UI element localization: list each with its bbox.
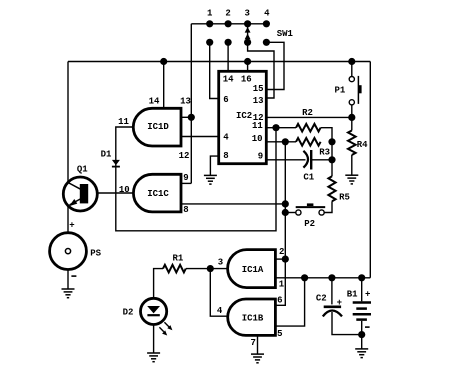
svg-text:R3: R3: [319, 148, 330, 158]
svg-text:14: 14: [223, 74, 234, 84]
svg-text:R1: R1: [172, 253, 183, 263]
svg-text:SW1: SW1: [277, 29, 294, 39]
wire: IC1B pin 7 to ground: [257, 335, 259, 354]
junction: rail to IC1 pin14: [160, 58, 167, 65]
svg-text:D2: D2: [123, 308, 134, 318]
svg-text:9: 9: [258, 152, 263, 162]
junction: SW1 position 1: [206, 39, 213, 46]
svg-text:16: 16: [241, 74, 252, 84]
gate IC1A: [228, 250, 276, 288]
svg-text:1: 1: [207, 9, 213, 19]
svg-text:3: 3: [244, 9, 249, 19]
wire: IC2 pin 8 to ground: [210, 156, 218, 175]
wire: IC1A pin 3 to R1: [186, 268, 229, 270]
svg-text:15: 15: [253, 84, 264, 94]
wire: IC1B pin 5 up to pin1 row: [275, 278, 304, 326]
battery B1: [353, 278, 371, 349]
junction: SW1 contact 2 top: [225, 20, 232, 27]
svg-text:4: 4: [223, 133, 229, 143]
junction: SW1 contact 3 top: [244, 20, 251, 27]
wire: IC1D output pin 11 feedback to R2 node: [116, 127, 276, 231]
svg-text:D1: D1: [101, 150, 112, 160]
wire: IC2 pin 9 to C1: [266, 159, 305, 161]
svg-text:11: 11: [118, 117, 129, 127]
svg-text:IC1A: IC1A: [242, 265, 264, 275]
junction: SW1 position 4: [263, 39, 270, 46]
svg-text:Q1: Q1: [77, 165, 88, 175]
svg-text:5: 5: [277, 329, 282, 339]
resistor R2: [296, 124, 321, 132]
wire: rail down to IC1D pin 14: [163, 62, 165, 109]
transistor Q1: [63, 177, 97, 211]
svg-text:+: +: [337, 298, 342, 308]
svg-text:C1: C1: [303, 173, 314, 183]
pushbutton P1: [349, 62, 361, 118]
svg-text:4: 4: [217, 306, 223, 316]
wire: PS minus to ground: [67, 270, 69, 290]
junction: pin3/pin4 node: [207, 265, 214, 272]
resistor R3: [296, 138, 321, 146]
op IC2 box: [219, 71, 267, 163]
junction: B1 top node: [358, 274, 365, 281]
svg-text:IC1C: IC1C: [147, 189, 169, 199]
svg-text:P1: P1: [334, 85, 345, 95]
resistor R4: [348, 117, 356, 175]
ground (B1): [355, 349, 368, 358]
wire: R1 left to D2: [154, 269, 163, 299]
svg-text:1: 1: [279, 280, 285, 290]
wire: IC2 pin 10 to R3: [266, 141, 296, 143]
junction: SW1 position 2: [225, 39, 232, 46]
junction: SW1 position 3: [244, 39, 251, 46]
svg-text:9: 9: [183, 173, 188, 183]
svg-text:2: 2: [279, 247, 284, 257]
svg-text:13: 13: [180, 97, 191, 107]
junction: pin 11 node: [272, 124, 279, 131]
svg-text:IC1D: IC1D: [147, 122, 169, 132]
wire: bottom supply row (IC1A pin1 to right rail): [275, 277, 370, 279]
svg-text:11: 11: [252, 121, 263, 131]
wire: SW1 pos2 to IC2 pin 14: [227, 42, 229, 71]
svg-text:12: 12: [179, 151, 190, 161]
svg-text:8: 8: [223, 151, 228, 161]
svg-text:6: 6: [223, 95, 228, 105]
gate IC1D: [133, 108, 181, 146]
ground (IC2 pin 8): [204, 175, 217, 184]
wire: IC1D pin 13 input: [181, 116, 191, 118]
wire: IC1A pin 2 input: [275, 258, 285, 260]
ground (R4): [345, 175, 358, 184]
ground (D2): [147, 353, 160, 362]
svg-text:8: 8: [183, 205, 188, 215]
gate IC1C: [133, 174, 181, 212]
svg-text:10: 10: [252, 134, 263, 144]
svg-text:14: 14: [149, 97, 160, 107]
junction: P2 row node: [282, 209, 289, 216]
svg-text:R4: R4: [357, 140, 368, 150]
wire: top supply rail: [68, 61, 370, 63]
wire: right rail from top rail to battery row: [369, 62, 371, 278]
junction: B1 minus / C2 minus node: [358, 331, 365, 338]
junction: pin13 node: [188, 114, 195, 121]
wire: R2 right to R3 node: [321, 128, 332, 142]
wire: D2 to ground: [153, 324, 155, 353]
svg-text:IC1B: IC1B: [242, 313, 264, 323]
wire: Q1 emitter to PS plus: [67, 206, 69, 233]
svg-text:B1: B1: [347, 289, 358, 299]
led D2: [141, 298, 173, 335]
minus label (B1): [365, 326, 370, 328]
svg-text:C2: C2: [316, 294, 327, 304]
wire: SW1 common down to IC1D pin13 / IC1C pin9: [190, 24, 192, 184]
switch SW1 wiper arrow: [245, 24, 251, 43]
connector PS: [50, 233, 87, 270]
diode D1: [112, 160, 120, 167]
svg-text:3: 3: [218, 257, 223, 267]
junction: rail to P1: [348, 58, 355, 65]
wire: C1 to R5 node: [311, 159, 332, 161]
wire: left rail from top rail to Q1 collector: [67, 62, 69, 183]
node SW1 common bus: [191, 23, 266, 25]
wire: vertical rail pin10 node down to IC1B pin 6: [275, 142, 285, 305]
svg-text:13: 13: [253, 96, 264, 106]
svg-text:2: 2: [225, 9, 230, 19]
ground (IC1B pin 7): [251, 354, 264, 363]
svg-text:R5: R5: [339, 193, 350, 203]
junction: SW1 contact 1 top: [206, 20, 213, 27]
pushbutton P2: [285, 203, 325, 215]
gate IC1B: [228, 299, 276, 335]
svg-text:6: 6: [277, 296, 282, 306]
junction: R2/R3 node: [328, 138, 335, 145]
wire: pin3 node down to IC1B pin 4: [210, 269, 227, 317]
junction: pin8 row node: [282, 200, 289, 207]
svg-text:P2: P2: [304, 219, 315, 229]
wire: SW1 pos4 to IC2 pin 15: [266, 42, 284, 89]
junction: C2 top node: [328, 274, 335, 281]
svg-text:PS: PS: [90, 249, 101, 259]
svg-text:IC2: IC2: [236, 111, 252, 121]
capacitor C1: [303, 150, 311, 170]
junction: P1 bottom on pin12 row: [348, 114, 355, 121]
resistor R1: [163, 265, 186, 273]
junction: pin 2 node: [282, 256, 289, 263]
resistor R5: [324, 160, 335, 213]
svg-text:7: 7: [250, 338, 255, 348]
wire: IC1C output pin 10 to Q1 base: [88, 192, 133, 194]
junction: pin1 row / pin5 node: [301, 274, 308, 281]
wire: IC1C pin 9 input: [181, 182, 191, 184]
wire: IC2 pin 12 row to P1: [266, 116, 352, 118]
junction: pin 10 node: [282, 138, 289, 145]
capacitor C2: [323, 278, 362, 335]
wire: SW1 pos3 to IC2 pin 13: [248, 42, 274, 98]
svg-text:+: +: [365, 289, 370, 299]
svg-text:R2: R2: [302, 108, 313, 118]
wire: IC1C pin 8 to IC1A pin 2 rail: [181, 203, 285, 205]
wire: rail down to IC2 pin 16: [247, 62, 249, 72]
ground (PS): [62, 289, 75, 298]
junction: rail to IC2 pin16: [244, 58, 251, 65]
wire: R3 node down to C1 node: [331, 142, 333, 160]
minus label (PS): [71, 275, 76, 277]
wire: IC1D pin 12 to IC2 pin 4: [181, 136, 219, 138]
junction: C1/R5 node: [328, 156, 335, 163]
wire: IC2 pin 11 to R2: [266, 127, 296, 129]
wire: SW1 pos1 to IC2 pin 6: [210, 42, 219, 98]
svg-text:+: +: [69, 221, 74, 231]
junction: SW1 contact 4 top: [263, 20, 270, 27]
svg-text:4: 4: [264, 9, 270, 19]
